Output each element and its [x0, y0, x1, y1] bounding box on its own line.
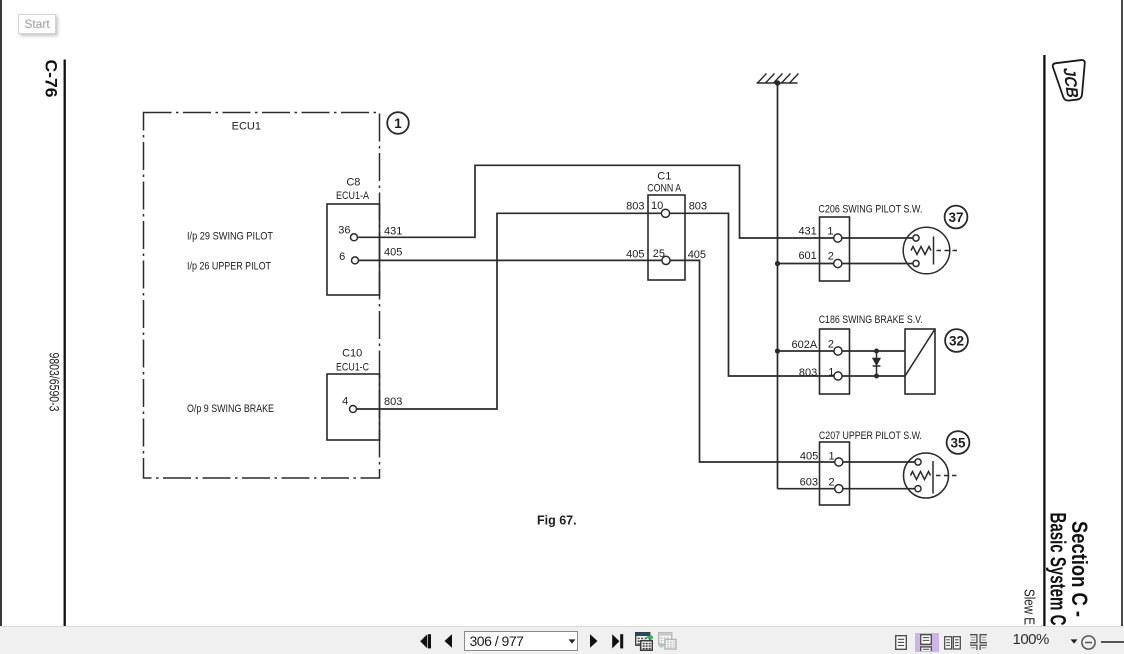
pin C186-2 — [834, 347, 842, 355]
wire C207 pin1 to switch — [843, 461, 915, 463]
view continuous facing icon — [970, 634, 987, 650]
pressure switch symbol S35 — [904, 453, 961, 498]
connector C186 box — [820, 329, 850, 394]
wire C186 pin2 to solenoid — [842, 350, 905, 352]
svg-text:JCB: JCB — [1059, 67, 1082, 99]
page border left — [64, 60, 66, 627]
svg-text:Slew E: Slew E — [1020, 589, 1037, 625]
pin C206-2 — [834, 259, 842, 267]
ground symbol — [757, 74, 799, 86]
svg-text:803: 803 — [384, 396, 402, 408]
view single page icon — [895, 635, 907, 650]
window left edge — [0, 0, 2, 626]
svg-text:32: 32 — [949, 333, 964, 348]
svg-text:C-76: C-76 — [42, 60, 61, 98]
svg-text:1: 1 — [394, 116, 402, 131]
svg-text:Fig 67.: Fig 67. — [537, 514, 577, 528]
pin C8-36 — [351, 234, 358, 241]
window right edge — [1121, 0, 1123, 626]
svg-text:I/p 29 SWING PILOT: I/p 29 SWING PILOT — [187, 231, 273, 243]
svg-text:405: 405 — [688, 249, 706, 261]
connector C206 box — [820, 217, 850, 281]
svg-text:CONN A: CONN A — [647, 183, 682, 195]
svg-text:ECU1: ECU1 — [232, 121, 261, 133]
svg-text:2: 2 — [828, 339, 834, 351]
svg-text:2: 2 — [829, 476, 835, 488]
page box dropdown arrow — [568, 639, 576, 644]
wire 405 ECU1 pin6 to C1 pin25 — [355, 259, 666, 261]
svg-text:1: 1 — [828, 367, 834, 379]
connector C8 box — [327, 204, 380, 295]
wire 803 ECU1 pin4 to C1 pin10 — [353, 213, 666, 409]
junction dot 601 — [775, 261, 780, 266]
svg-text:1: 1 — [827, 225, 833, 237]
pin C207-1 — [835, 458, 843, 466]
pin C1-10 — [661, 209, 669, 217]
svg-text:803: 803 — [689, 201, 707, 213]
wire 431 ECU1 pin36 to C206 pin1 — [354, 165, 838, 238]
junction dot diode top — [874, 349, 879, 354]
pin C186-1 — [834, 372, 842, 380]
callout circle 35 — [947, 431, 970, 454]
wire C186 pin1 to solenoid — [842, 375, 905, 377]
solenoid diagonal — [905, 329, 935, 376]
connector C207 box — [820, 442, 850, 505]
svg-text:C206 SWING PILOT S.W.: C206 SWING PILOT S.W. — [818, 204, 922, 216]
wire diode branch — [876, 351, 878, 376]
ECU1 dashed box — [144, 113, 380, 479]
wire ground vertical — [777, 83, 779, 489]
svg-text:405: 405 — [800, 451, 818, 463]
pressure switch symbol S37 — [903, 227, 958, 274]
svg-text:C207 UPPER PILOT S.W.: C207 UPPER PILOT S.W. — [819, 430, 922, 442]
connector C10 box — [327, 374, 380, 440]
wire 602A ground to C186 pin2 — [778, 350, 839, 352]
page number box — [464, 631, 578, 651]
svg-text:Basic System C: Basic System C — [1046, 513, 1071, 626]
svg-text:405: 405 — [384, 246, 402, 258]
pin C10-4 — [350, 406, 357, 413]
svg-text:9803/6590-3: 9803/6590-3 — [46, 353, 62, 412]
svg-text:25: 25 — [653, 248, 665, 260]
svg-text:602A: 602A — [791, 339, 817, 351]
zoom percent — [1013, 631, 1049, 648]
svg-text:ECU1-A: ECU1-A — [336, 190, 370, 202]
svg-text:C186 SWING BRAKE S.V.: C186 SWING BRAKE S.V. — [819, 314, 923, 326]
svg-text:6: 6 — [339, 251, 345, 263]
diode D1 — [873, 358, 881, 366]
svg-text:4: 4 — [342, 396, 348, 408]
wire 405 C1 pin25 to C207 pin1 — [666, 260, 839, 462]
connector C1 box — [648, 195, 685, 280]
svg-text:I/p 26 UPPER PILOT: I/p 26 UPPER PILOT — [187, 261, 271, 273]
svg-text:35: 35 — [950, 435, 966, 450]
pin C207-2 — [835, 485, 843, 493]
svg-text:36: 36 — [338, 224, 350, 236]
zoom dropdown arrow — [1070, 639, 1078, 644]
wire C206 pin2 to switch — [842, 263, 913, 265]
zoom slider track — [1101, 641, 1124, 643]
callout circle 1 — [387, 112, 409, 134]
toolbar — [0, 626, 1124, 654]
view facing icon — [944, 636, 961, 650]
solenoid valve body — [905, 329, 935, 394]
svg-text:37: 37 — [948, 210, 963, 225]
svg-text:603: 603 — [800, 476, 818, 488]
wire 601 ground to C206 pin2 — [778, 263, 838, 265]
svg-text:C10: C10 — [342, 347, 362, 359]
goto table icon — [635, 632, 653, 651]
svg-text:803: 803 — [799, 367, 817, 379]
view continuous icon (selected) — [915, 633, 939, 652]
pin C206-1 — [834, 234, 842, 242]
last page button — [612, 634, 625, 649]
wire 803 C1 pin10 to C186 pin1 — [666, 213, 839, 376]
pin C1-25 — [662, 256, 670, 264]
callout circle 32 — [945, 329, 968, 352]
prev page button — [444, 634, 453, 648]
svg-text:405: 405 — [626, 248, 644, 260]
JCB logo — [1052, 60, 1089, 103]
svg-text:431: 431 — [384, 226, 402, 238]
svg-text:C1: C1 — [657, 170, 671, 182]
next page button — [589, 634, 598, 648]
svg-text:803: 803 — [626, 201, 644, 213]
junction dot diode bottom — [874, 374, 879, 379]
svg-text:1: 1 — [829, 451, 835, 463]
svg-text:10: 10 — [651, 200, 663, 212]
wire C206 pin1 to switch — [842, 237, 913, 239]
svg-text:601: 601 — [798, 250, 816, 262]
goto table icon disabled — [658, 632, 677, 650]
svg-text:C8: C8 — [346, 177, 360, 189]
start button — [18, 14, 56, 34]
first page button — [420, 634, 432, 649]
svg-text:431: 431 — [798, 225, 816, 237]
wire C207 pin2 to switch — [843, 488, 915, 490]
wire 603 to C207 pin2 — [778, 488, 839, 490]
svg-text:2: 2 — [828, 250, 834, 262]
svg-text:ECU1-C: ECU1-C — [336, 362, 369, 374]
junction dot 602A — [775, 348, 780, 353]
page border right — [1043, 55, 1045, 626]
svg-text:O/p 9 SWING BRAKE: O/p 9 SWING BRAKE — [187, 403, 274, 415]
zoom out button — [1081, 635, 1096, 650]
pin C8-6 — [352, 257, 359, 264]
callout circle 37 — [945, 206, 968, 229]
